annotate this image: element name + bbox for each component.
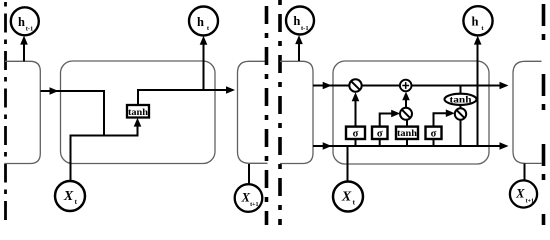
svg-text:tanh: tanh <box>128 108 149 118</box>
node h_t-1 (LSTM previous hidden state) <box>286 7 314 35</box>
wire: next cell down to X_t+1 <box>248 164 250 185</box>
svg-text:tanh: tanh <box>450 96 473 106</box>
dash-dot boundary line right <box>542 0 546 225</box>
node X_t (RNN input) <box>55 181 85 211</box>
wire: X_t up into h line <box>347 146 349 182</box>
add node <box>400 80 412 92</box>
dash-dot boundary line center-right <box>278 0 282 225</box>
svg-text:t-1: t-1 <box>26 26 34 33</box>
tanh oval (output activation) <box>445 94 477 105</box>
wire: forget gate sigma up to multiply node <box>355 101 357 128</box>
multiply node (output gate) <box>455 108 466 119</box>
svg-text:tanh: tanh <box>397 129 418 139</box>
svg-text:h: h <box>197 15 204 29</box>
svg-text:h: h <box>472 15 479 29</box>
svg-text:t+1: t+1 <box>526 198 534 204</box>
multiply node (input gate) <box>400 108 412 120</box>
wire: C line down through tanh oval and multiply to h line <box>460 86 462 96</box>
gate box tanh (candidate) <box>396 127 418 139</box>
tanh activation box (RNN) <box>127 105 149 118</box>
dash-dot boundary line left <box>4 2 7 224</box>
svg-text:X: X <box>341 189 352 204</box>
gate box sigma 1 (forget) <box>346 127 365 139</box>
wire: next cell down to X_t+1 (LSTM) <box>524 163 526 180</box>
svg-text:σ: σ <box>353 128 359 139</box>
svg-text:σ: σ <box>431 128 437 139</box>
multiply node (forget gate) <box>349 79 361 91</box>
node h_t-1 (RNN output of previous step) <box>11 7 39 35</box>
previous LSTM cell (stub rounded rect) <box>280 61 313 163</box>
node X_t+1 (RNN next input) <box>235 184 263 212</box>
svg-text:t-1: t-1 <box>301 25 309 32</box>
wire: stubs from h line up into gate boxes <box>355 139 357 146</box>
dash-dot boundary line center-left <box>265 0 269 225</box>
gate box sigma 2 (input) <box>372 127 388 139</box>
wire: candidate tanh box up to multiply node <box>406 120 408 128</box>
svg-text:X: X <box>515 187 525 201</box>
gate box sigma 3 (output) <box>426 127 442 139</box>
svg-text:h: h <box>18 15 25 29</box>
wire: h_t-1 into RNN cell, then down to merge <box>41 91 105 136</box>
wire: branch up to h_t <box>203 44 205 90</box>
svg-text:h: h <box>293 14 300 28</box>
wire: output gate sigma right into multiply node <box>434 113 448 127</box>
node X_t (LSTM input) <box>333 182 363 212</box>
wire: arrow from previous LSTM cell up to h_t-1 <box>298 43 300 62</box>
wire: branch up to h_t (LSTM) <box>477 44 479 147</box>
wire: input gate sigma right into multiply node <box>380 114 393 128</box>
node h_t (RNN output) <box>189 7 218 36</box>
node X_t+1 (LSTM next input) <box>510 180 537 207</box>
previous RNN cell (stub rounded rect) <box>5 61 40 163</box>
RNN cell main rounded rect <box>61 61 216 164</box>
next LSTM cell (stub rounded rect) <box>513 61 542 163</box>
wire: tanh output right to next cell <box>138 90 233 105</box>
next RNN cell (stub rounded rect) <box>238 61 268 163</box>
svg-text:σ: σ <box>377 128 383 139</box>
node h_t (LSTM output) <box>463 6 492 35</box>
svg-text:t+1: t+1 <box>250 202 258 208</box>
wire: arrow from previous cell up to h_t-1 <box>23 43 25 61</box>
wire: cell state line C (top) <box>313 85 507 87</box>
wire: X_t up and right into tanh <box>71 121 138 181</box>
LSTM cell main rounded rect <box>333 61 489 164</box>
wire: hidden state line h (bottom) <box>313 145 507 147</box>
svg-text:X: X <box>63 189 74 204</box>
wire: multiply node up to add node <box>405 95 407 108</box>
